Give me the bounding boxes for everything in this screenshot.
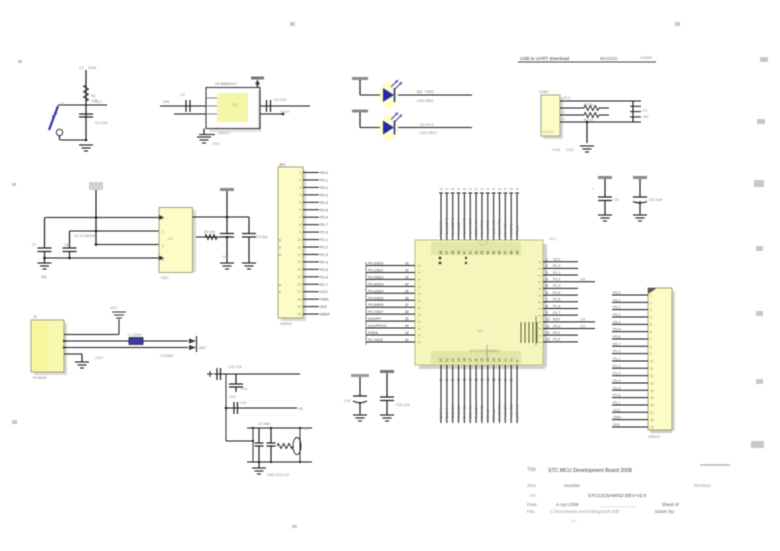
svg-text:P1.4: P1.4 [553,291,560,295]
svg-text:D1: D1 [417,89,423,94]
svg-text:47: 47 [504,187,508,191]
svg-text:XTAL2: XTAL2 [514,225,519,237]
svg-text:VCC: VCC [613,408,621,412]
svg-text:P0.2: P0.2 [613,306,620,310]
svg-text:P3.2/INT0: P3.2/INT0 [491,219,496,237]
svg-text:18: 18 [463,378,467,382]
svg-text:Drawn By:: Drawn By: [655,509,675,514]
svg-text:P2.3: P2.3 [320,253,328,257]
svg-text:Sheet of: Sheet of [662,502,680,507]
svg-text:15: 15 [650,396,654,400]
svg-text:P1.0: P1.0 [553,264,560,268]
svg-text:36: 36 [439,187,443,191]
svg-text:AREF: AREF [320,313,331,317]
svg-text:2: 2 [162,230,164,234]
svg-text:13: 13 [492,358,496,362]
svg-text:P1.5/SS: P1.5/SS [456,222,461,237]
svg-text:P0.2/AD2: P0.2/AD2 [368,275,383,279]
svg-text:48: 48 [510,187,514,191]
svg-text:P0.5: P0.5 [613,328,620,332]
svg-text:11: 11 [298,245,302,249]
svg-text:Y2: Y2 [303,427,307,431]
svg-text:17: 17 [468,378,472,382]
svg-text:P0.0/AD0: P0.0/AD0 [368,262,383,266]
svg-text:17: 17 [650,411,654,415]
svg-text:P1.1: P1.1 [613,357,620,361]
svg-text:P1.6: P1.6 [613,394,620,398]
svg-text:37: 37 [445,187,449,191]
svg-text:17: 17 [297,290,301,294]
svg-text:P0.0: P0.0 [613,291,620,295]
svg-text:33: 33 [405,331,409,335]
svg-text:Number: Number [564,483,581,488]
svg-text:P0.3: P0.3 [613,313,620,317]
svg-text:U1: U1 [478,328,484,333]
svg-text:C11: C11 [241,387,247,391]
svg-text:HDR19: HDR19 [648,435,660,439]
svg-text:C5: C5 [614,198,619,202]
svg-text:P1.3: P1.3 [613,372,620,376]
svg-text:P0.7/AD7: P0.7/AD7 [368,310,383,314]
svg-text:GND: GND [212,142,220,146]
svg-text:17: 17 [468,358,472,362]
svg-text:39: 39 [457,251,461,255]
svg-text:19: 19 [297,305,301,309]
svg-text:32.768K: 32.768K [258,422,271,426]
svg-text:8: 8 [650,345,652,349]
svg-text:P1: P1 [643,109,647,113]
svg-text:P3.1: P3.1 [553,331,560,335]
svg-text:LED RED: LED RED [417,99,434,103]
svg-text:R4 1M: R4 1M [204,230,215,234]
svg-text:14: 14 [486,378,490,382]
svg-text:P1.0: P1.0 [613,350,620,354]
svg-text:12: 12 [650,374,654,378]
svg-text:46: 46 [498,187,502,191]
svg-text:VIN: VIN [163,100,170,104]
svg-text:File:: File: [527,509,535,514]
svg-text:14: 14 [297,268,301,272]
svg-text:C8: C8 [64,243,68,247]
svg-text:16: 16 [297,283,301,287]
svg-text:VCC: VCC [549,237,557,241]
svg-text:xxx: xxx [571,519,577,523]
svg-text:R3 22: R3 22 [584,118,593,122]
svg-text:21: 21 [445,378,449,382]
svg-text:P2.7/A15: P2.7/A15 [368,338,383,342]
svg-text:39: 39 [457,187,461,191]
svg-text:P1.7/MOSI: P1.7/MOSI [467,218,472,237]
svg-text:VCC: VCC [110,306,118,310]
svg-text:38: 38 [451,251,455,255]
svg-text:P2.2: P2.2 [320,246,328,250]
svg-text:P1.5: P1.5 [613,386,620,390]
svg-text:P2.0/A8: P2.0/A8 [438,407,443,421]
svg-text:2: 2 [546,264,548,268]
svg-text:P0.4/AD4: P0.4/AD4 [368,289,383,293]
svg-text:P2.4/A12: P2.4/A12 [462,405,467,421]
svg-text:P0.1: P0.1 [613,298,620,302]
svg-text:P2.6/A14: P2.6/A14 [473,404,478,421]
svg-text:12: 12 [498,358,502,362]
svg-text:40: 40 [463,251,467,255]
svg-text:VBUS: VBUS [562,96,571,100]
svg-text:10: 10 [546,318,550,322]
svg-text:P4.1/AD1: P4.1/AD1 [508,404,513,421]
svg-text:44: 44 [486,187,490,191]
svg-text:22: 22 [439,358,443,362]
svg-text:C1: C1 [79,66,84,70]
svg-text:P2.4: P2.4 [320,260,328,264]
svg-text:42: 42 [474,251,478,255]
svg-text:40: 40 [463,187,467,191]
svg-text:Y1: Y1 [168,237,173,241]
svg-text:A4: A4 [530,493,536,498]
svg-text:5: 5 [650,323,652,327]
svg-text:P0.5/AD5: P0.5/AD5 [368,296,383,300]
svg-text:30p: 30p [41,275,47,279]
svg-text:P2.7: P2.7 [320,283,328,287]
svg-text:49: 49 [515,187,519,191]
svg-text:4: 4 [650,315,652,319]
svg-text:PWR: PWR [425,90,434,94]
svg-text:7: 7 [299,216,301,220]
svg-text:LED RED: LED RED [420,131,437,135]
svg-text:42: 42 [474,187,478,191]
svg-text:Title: Title [527,467,536,473]
svg-text:STC MCU Development Board 2008: STC MCU Development Board 2008 [548,468,632,474]
svg-text:20: 20 [297,312,301,316]
svg-text:P2.1: P2.1 [320,238,328,242]
svg-text:LM1117: LM1117 [218,131,230,135]
svg-text:L1 10uH: L1 10uH [128,333,142,337]
svg-text:P1.6/MISO: P1.6/MISO [462,218,467,237]
svg-text:P0.0: P0.0 [320,171,328,175]
svg-text:Revision: Revision [694,483,711,488]
svg-text:12: 12 [546,331,550,335]
svg-text:1: 1 [299,171,301,175]
svg-text:P0.6: P0.6 [613,335,620,339]
svg-text:P0.4: P0.4 [320,201,328,205]
svg-text:19: 19 [650,425,654,429]
svg-text:5: 5 [546,284,548,288]
svg-text:P1.6: P1.6 [553,304,560,308]
svg-text:OSC: OSC [161,276,169,280]
svg-text:7: 7 [546,298,548,302]
svg-text:RST/P4.7: RST/P4.7 [473,220,478,237]
svg-text:P0.1: P0.1 [320,178,328,182]
svg-text:STC12C5A60S2-DEV-V2.0: STC12C5A60S2-DEV-V2.0 [588,493,646,499]
svg-text:_______________: _______________ [599,502,636,507]
svg-text:MAX232: MAX232 [600,56,618,61]
svg-text:C6 10uF: C6 10uF [649,198,664,202]
svg-text:16: 16 [650,403,654,407]
svg-text:C2 104: C2 104 [95,121,107,125]
svg-text:13: 13 [492,378,496,382]
svg-text:10: 10 [650,359,654,363]
svg-text:6: 6 [650,330,652,334]
svg-text:C9 30p: C9 30p [256,235,268,239]
svg-text:XTAL2: XTAL2 [485,409,490,421]
svg-text:USB: USB [552,147,561,152]
svg-text:P0.3/AD3: P0.3/AD3 [368,282,383,286]
svg-text:C12: C12 [240,401,247,405]
svg-text:P1.3/CCP0: P1.3/CCP0 [444,217,449,237]
svg-text:D-: D- [562,110,565,114]
svg-text:10K: 10K [580,278,587,282]
svg-text:VB: VB [298,407,303,411]
svg-text:14: 14 [650,389,654,393]
svg-text:3: 3 [162,244,164,248]
svg-text:P0.7: P0.7 [320,223,328,227]
svg-text:ALE/PROG: ALE/PROG [368,324,387,328]
svg-text:11: 11 [504,358,508,362]
svg-text:19: 19 [457,378,461,382]
svg-text:37: 37 [445,251,449,255]
svg-text:8: 8 [299,223,301,227]
svg-text:12: 12 [297,253,301,257]
svg-text:20: 20 [451,358,455,362]
svg-text:3: 3 [650,308,652,312]
svg-text:P1.2: P1.2 [553,278,560,282]
svg-text:13: 13 [650,381,654,385]
svg-text:VOUT: VOUT [280,110,291,114]
svg-text:R2 22: R2 22 [584,103,593,107]
svg-text:EA/VPP: EA/VPP [368,317,382,321]
svg-text:HDR20: HDR20 [280,322,292,326]
svg-text:1: 1 [546,258,548,262]
svg-text:P3.5/T1: P3.5/T1 [508,223,513,237]
svg-text:10K: 10K [580,318,587,322]
svg-text:RST: RST [553,318,561,322]
svg-text:P2.7/A15: P2.7/A15 [479,405,484,421]
svg-text:20: 20 [451,378,455,382]
svg-text:P1.4/CCP1: P1.4/CCP1 [450,218,455,237]
svg-text:P2.6: P2.6 [320,275,328,279]
svg-text:P1.7: P1.7 [553,311,560,315]
svg-text:P0.2: P0.2 [320,186,328,190]
svg-text:C15: C15 [344,399,350,403]
svg-text:1 2 3 4: 1 2 3 4 [543,130,553,134]
svg-text:37: 37 [405,303,409,307]
svg-text:CH340: CH340 [640,56,652,60]
svg-text:6: 6 [546,291,548,295]
svg-text:GND: GND [566,148,574,152]
svg-text:10: 10 [509,358,513,362]
svg-text:21: 21 [445,358,449,362]
svg-text:P2.2/A10: P2.2/A10 [450,404,455,421]
svg-text:36: 36 [405,310,409,314]
svg-text:P3.0: P3.0 [553,324,560,328]
svg-text:45: 45 [492,251,496,255]
svg-text:12: 12 [498,378,502,382]
svg-text:ISP: ISP [643,115,649,119]
svg-text:GND: GND [320,298,329,302]
svg-text:18: 18 [463,358,467,362]
svg-text:3.3: 3.3 [232,103,237,107]
svg-text:9: 9 [515,360,519,362]
svg-text:44: 44 [486,251,490,255]
svg-text:P1.2/ECI: P1.2/ECI [438,221,443,237]
svg-text:42: 42 [405,268,409,272]
svg-text:VCC: VCC [320,290,328,294]
svg-text:34: 34 [405,324,409,328]
svg-text:36: 36 [439,251,443,255]
svg-text:P2.0: P2.0 [320,231,328,235]
svg-text:10uF: 10uF [88,66,97,70]
svg-text:48: 48 [509,251,513,255]
svg-text:USB1: USB1 [539,90,549,94]
svg-text:43: 43 [405,262,409,266]
svg-text:GND: GND [95,356,103,360]
svg-text:P0.7: P0.7 [613,342,620,346]
svg-text:9: 9 [546,311,548,315]
svg-text:P4.0/AD0: P4.0/AD0 [503,404,508,421]
svg-text:C4 104: C4 104 [274,98,286,102]
svg-text:CC2500: CC2500 [160,354,173,358]
svg-text:43: 43 [480,251,484,255]
svg-text:39: 39 [405,289,409,293]
svg-text:C:\Documents and Settings\sch.: C:\Documents and Settings\sch.Ddb [550,509,620,514]
svg-text:GND: GND [229,395,237,399]
svg-text:6: 6 [299,208,301,212]
svg-text:J2: J2 [33,315,37,319]
svg-text:7: 7 [650,337,652,341]
svg-text:XTAL1: XTAL1 [491,409,496,421]
svg-text:P1.7: P1.7 [613,401,620,405]
svg-text:RST: RST [95,100,103,104]
svg-text:Size: Size [527,483,536,488]
svg-text:3: 3 [546,271,548,275]
svg-text:2: 2 [650,301,652,305]
svg-text:D2 P1.0: D2 P1.0 [420,123,434,127]
svg-text:VCC: VCC [553,258,561,262]
svg-text:15: 15 [297,275,301,279]
svg-text:STC12C5A60S2: STC12C5A60S2 [470,348,500,353]
svg-text:11: 11 [650,367,654,371]
svg-text:POWER: POWER [33,376,47,380]
svg-text:P2.5/A13: P2.5/A13 [467,405,472,421]
svg-text:15: 15 [480,378,484,382]
svg-text:S1: S1 [60,102,64,106]
svg-text:43: 43 [480,187,484,191]
svg-text:10K: 10K [580,324,587,328]
svg-text:P0.6: P0.6 [320,216,328,220]
svg-text:11: 11 [504,378,508,382]
svg-text:ANT: ANT [199,346,207,350]
svg-text:USB to UART download: USB to UART download [520,56,570,61]
svg-text:40: 40 [405,282,409,286]
svg-text:22: 22 [439,378,443,382]
svg-text:P1.2: P1.2 [613,364,620,368]
svg-text:8: 8 [546,304,548,308]
svg-text:X1 11.0592M: X1 11.0592M [74,234,95,238]
svg-text:11: 11 [546,324,550,328]
svg-text:10: 10 [297,238,301,242]
svg-text:P0.5: P0.5 [320,208,328,212]
svg-text:P1.5: P1.5 [553,298,560,302]
svg-text:ALE/P4.5: ALE/P4.5 [514,405,519,421]
svg-text:1: 1 [650,294,652,298]
svg-text:38: 38 [451,187,455,191]
svg-text:JP1: JP1 [279,163,286,167]
svg-text:GND C13 C14: GND C13 C14 [267,473,289,477]
svg-text:9: 9 [650,352,652,356]
svg-text:Date:: Date: [527,502,538,507]
svg-text:4-Apr-2008: 4-Apr-2008 [556,502,579,507]
svg-text:C3: C3 [180,93,185,97]
svg-text:P3.1/TXD: P3.1/TXD [485,220,490,237]
svg-text:19: 19 [457,358,461,362]
svg-text:38: 38 [405,296,409,300]
svg-text:P0.1/AD1: P0.1/AD1 [368,268,383,272]
svg-text:41: 41 [405,275,409,279]
svg-text:2: 2 [299,178,301,182]
svg-text:13: 13 [546,338,550,342]
svg-text:GND: GND [222,255,230,259]
svg-text:P2.3/A11: P2.3/A11 [456,405,461,421]
svg-text:U2 AMS1117: U2 AMS1117 [215,82,237,86]
svg-text:9: 9 [299,230,301,234]
svg-text:18: 18 [650,418,654,422]
svg-text:P0.3: P0.3 [320,193,328,197]
svg-text:PSEN: PSEN [368,331,378,335]
svg-text:P2.1/A9: P2.1/A9 [444,407,449,421]
svg-text:GND: GND [613,416,621,420]
svg-text:GND/VSS: GND/VSS [497,403,502,421]
svg-text:15: 15 [480,358,484,362]
svg-text:4: 4 [546,278,548,282]
svg-text:+: + [592,186,595,191]
svg-text:P2.5: P2.5 [320,268,328,272]
svg-text:47: 47 [504,251,508,255]
svg-text:46: 46 [498,251,502,255]
svg-text:16: 16 [474,378,478,382]
svg-text:41: 41 [469,187,473,191]
svg-text:45: 45 [492,187,496,191]
svg-text:P3.3/INT1: P3.3/INT1 [497,219,502,237]
svg-text:13: 13 [297,260,301,264]
svg-text:P3.4/T0: P3.4/T0 [503,223,508,237]
svg-text:32: 32 [405,338,409,342]
svg-text:P3.0/RXD: P3.0/RXD [479,220,484,237]
svg-text:P0.4: P0.4 [613,320,620,324]
svg-text:P1.4: P1.4 [613,379,620,383]
svg-text:9: 9 [516,378,518,382]
svg-text:5: 5 [299,201,301,205]
svg-text:P0.6/AD6: P0.6/AD6 [368,303,383,307]
svg-text:C10 104: C10 104 [228,365,242,369]
svg-text:4: 4 [299,193,301,197]
svg-text:C7: C7 [32,243,36,247]
svg-text:41: 41 [468,251,472,255]
svg-text:3: 3 [299,186,301,190]
svg-text:P1.3: P1.3 [553,284,560,288]
svg-text:3V3: 3V3 [613,423,619,427]
svg-text:16: 16 [474,358,478,362]
svg-text:49: 49 [515,251,519,255]
svg-text:3V3: 3V3 [320,305,327,309]
svg-text:D+: D+ [562,117,566,121]
svg-text:R1: R1 [91,94,96,98]
svg-text:P3.2: P3.2 [553,338,560,342]
svg-text:P1.1: P1.1 [553,271,560,275]
svg-text:10: 10 [509,378,513,382]
svg-text:35: 35 [405,317,409,321]
svg-text:18: 18 [297,297,301,301]
svg-text:C16 104: C16 104 [396,403,410,407]
